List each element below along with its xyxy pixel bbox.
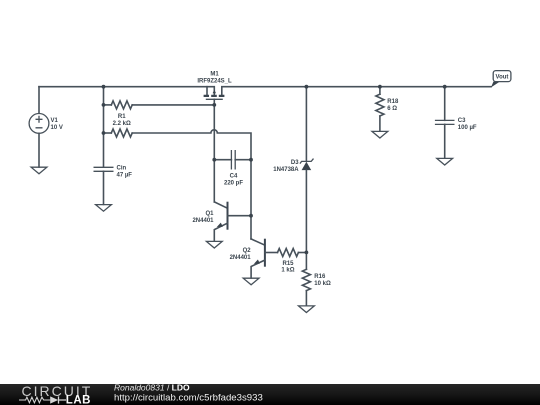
svg-text:R1: R1	[118, 114, 126, 120]
svg-text:1N4738A: 1N4738A	[273, 167, 299, 173]
svg-text:10 kΩ: 10 kΩ	[314, 281, 331, 287]
svg-text:R15: R15	[282, 261, 294, 267]
svg-text:220 pF: 220 pF	[224, 181, 243, 187]
svg-text:47 µF: 47 µF	[117, 172, 133, 178]
svg-text:6 Ω: 6 Ω	[387, 106, 397, 112]
svg-text:100 µF: 100 µF	[458, 125, 477, 131]
svg-text:V1: V1	[51, 118, 59, 124]
svg-text:R16: R16	[314, 274, 326, 280]
svg-text:2.2 kΩ: 2.2 kΩ	[113, 121, 131, 127]
svg-text:C3: C3	[458, 118, 466, 124]
svg-text:Cin: Cin	[117, 165, 127, 171]
svg-text:2N4401: 2N4401	[230, 255, 252, 261]
svg-text:C4: C4	[230, 174, 238, 180]
svg-text:D3: D3	[291, 160, 299, 166]
svg-text:10 V: 10 V	[51, 125, 63, 131]
svg-text:Q2: Q2	[243, 248, 252, 254]
svg-text:Vout: Vout	[496, 75, 509, 81]
svg-text:Ronaldo0831 / LDO: Ronaldo0831 / LDO	[114, 382, 190, 392]
svg-text:http://circuitlab.com/c5rbfade: http://circuitlab.com/c5rbfade3s933	[114, 393, 263, 404]
svg-text:R18: R18	[387, 99, 399, 105]
svg-text:Q1: Q1	[205, 211, 214, 217]
svg-text:2N4401: 2N4401	[192, 218, 214, 224]
svg-text:IRF9Z24S_L: IRF9Z24S_L	[197, 78, 232, 84]
svg-text:1 kΩ: 1 kΩ	[281, 267, 294, 273]
svg-text:M1: M1	[210, 71, 219, 77]
svg-text:LAB: LAB	[66, 395, 91, 405]
